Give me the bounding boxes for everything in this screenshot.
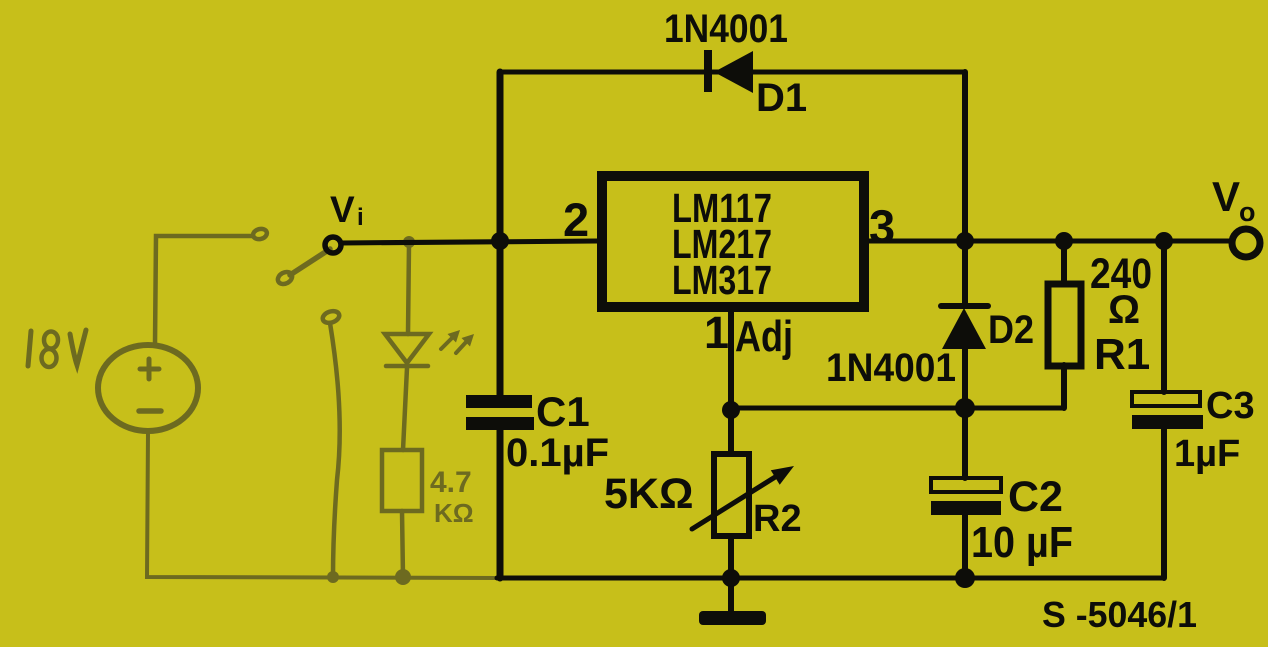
svg-text:5KΩ: 5KΩ	[604, 470, 693, 518]
svg-text:LM317: LM317	[672, 257, 772, 303]
svg-text:S -5046/1: S -5046/1	[1042, 594, 1197, 635]
svg-text:1µF: 1µF	[1174, 433, 1240, 475]
svg-text:0.1µF: 0.1µF	[506, 431, 609, 475]
svg-text:1N4001: 1N4001	[826, 346, 956, 390]
svg-text:R1: R1	[1094, 330, 1150, 379]
svg-text:3: 3	[869, 200, 895, 253]
svg-text:o: o	[1239, 197, 1256, 227]
svg-text:V: V	[1212, 173, 1240, 220]
svg-text:D1: D1	[756, 76, 807, 120]
svg-text:R2: R2	[753, 498, 802, 540]
svg-text:1N4001: 1N4001	[664, 7, 788, 51]
svg-text:10 µF: 10 µF	[971, 518, 1073, 567]
svg-text:2: 2	[563, 193, 589, 246]
svg-text:KΩ: KΩ	[434, 498, 474, 528]
svg-text:1: 1	[704, 307, 729, 358]
svg-text:Adj: Adj	[735, 312, 793, 361]
svg-text:D2: D2	[988, 308, 1034, 352]
svg-text:V: V	[330, 189, 355, 230]
svg-text:C3: C3	[1206, 385, 1255, 427]
svg-text:C1: C1	[536, 388, 590, 435]
svg-text:C2: C2	[1008, 473, 1063, 521]
svg-text:Ω: Ω	[1108, 288, 1140, 332]
svg-text:4.7: 4.7	[430, 466, 472, 499]
svg-text:i: i	[357, 204, 364, 231]
